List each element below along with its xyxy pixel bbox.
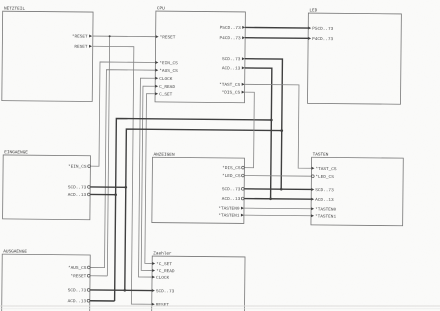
wire net CLOCK (CPU to ZAEHLER) xyxy=(139,78,156,277)
wire net *TAST_CS (CPU to TASTEN) xyxy=(244,84,312,168)
pin AUSGAENGE *AUS_CS xyxy=(68,266,90,271)
pin CPU P4CD..73 xyxy=(220,36,246,41)
wire bus P5CD..73 (CPU to LED) xyxy=(245,26,308,29)
block TASTEN xyxy=(311,152,403,225)
pin NETZTEIL RESET xyxy=(74,45,92,50)
wire bus SCD..73 (AUSGAENGE to ZAEHLER row) xyxy=(90,289,152,292)
pin AUSGAENGE ACD..13 xyxy=(68,299,90,304)
block NETZTEIL xyxy=(2,7,93,102)
junction node SCD at (281.5,188.6) xyxy=(280,188,283,191)
wire net *AUS_CS (CPU to AUSGAENGE) xyxy=(90,70,155,269)
pin AUSGAENGE SCD..73 xyxy=(68,288,90,293)
pin ANZEIGEN *TASTEN1 xyxy=(218,213,244,218)
block LED xyxy=(308,8,402,104)
pin CPU P5CD..73 xyxy=(220,26,246,31)
wire net *DIS_CS (CPU to ANZEIGEN) xyxy=(244,92,254,168)
pin CPU C_SET xyxy=(155,92,173,97)
pin CPU ACD..13 xyxy=(222,66,245,71)
pin ANZEIGEN ACD..13 xyxy=(222,197,244,202)
wire net *LED_CS (ANZEIGEN to TASTEN) xyxy=(244,175,311,178)
pin EINGAENGE ACD..13 xyxy=(68,193,90,198)
wire net *TASTEN1 (ANZEIGEN to TASTEN) xyxy=(244,214,311,217)
wire net C_SET (CPU to ZAEHLER) xyxy=(145,94,155,264)
pin ZAEHLER RESET xyxy=(152,303,170,308)
pin LED P5CD..73 xyxy=(308,27,333,32)
pin CPU SCD..73 xyxy=(222,57,245,62)
wire bus ACD..13 (CPU right drop) xyxy=(244,68,272,199)
pin ANZEIGEN *LED_CS xyxy=(222,174,244,179)
junction node *RESET at (108.7,37.3) xyxy=(109,35,111,37)
pin NETZTEIL *RESET xyxy=(72,34,92,39)
pin ANZEIGEN SCD..73 xyxy=(222,187,244,192)
pin ZAEHLER SCD..73 xyxy=(152,289,175,294)
scan streak bottom xyxy=(0,305,440,309)
pin CPU *TAST_CS xyxy=(219,83,245,88)
block ANZEIGEN xyxy=(152,153,245,224)
pin TASTEN SCD..73 xyxy=(311,188,334,193)
pin CPU CLOCK xyxy=(155,77,173,82)
pin ZAEHLER *C_READ xyxy=(152,269,175,274)
pin TASTEN *TASTEN0 xyxy=(311,207,336,212)
wire net RESET (NETZTEIL to ZAEHLER) xyxy=(90,46,154,304)
wire bus SCD..73 (main horizontal run) xyxy=(125,129,282,292)
pin EINGAENGE SCD..73 xyxy=(68,185,90,190)
wire bus SCD..73 (EINGAENGE row) xyxy=(90,186,126,188)
wire bus ACD..13 (EINGAENGE row) xyxy=(90,193,115,195)
block AUSGAENGE xyxy=(2,249,91,311)
pin TASTEN *TASTEN1 xyxy=(311,214,336,219)
pin ZAEHLER *C_SET xyxy=(152,262,172,267)
pin ZAEHLER CLOCK xyxy=(152,276,170,281)
junction node ACD at (271,198.3) xyxy=(269,197,272,200)
block EINGAENGE xyxy=(3,150,91,220)
wire bus SCD..73 (CPU right drop) xyxy=(244,59,283,189)
pin LED P4CD..73 xyxy=(308,37,333,42)
wire net C_READ (CPU to ZAEHLER) xyxy=(141,86,155,270)
wire bus ACD..13 (ANZEIGEN to TASTEN row) xyxy=(244,198,311,201)
wire bus SCD..73 (ANZEIGEN to TASTEN row) xyxy=(244,188,311,191)
pin CPU *EIN_CS xyxy=(155,61,178,66)
block CPU xyxy=(155,6,245,102)
pin AUSGAENGE *RESET xyxy=(70,274,90,279)
wire bus P4CD..73 (CPU to LED) xyxy=(245,37,308,40)
wire bus ACD..13 (AUSGAENGE row) xyxy=(90,300,115,302)
pin CPU *DIS_CS xyxy=(222,90,245,95)
junction node SCD at (126.1,187.6) xyxy=(124,186,127,189)
pin TASTEN ACD..13 xyxy=(311,198,334,203)
pin CPU *RESET xyxy=(156,35,176,40)
junction node ACD at (271,119.5) xyxy=(270,119,273,122)
pin TASTEN *LED_CS xyxy=(311,175,334,180)
wire net *TASTEN0 (ANZEIGEN to TASTEN) xyxy=(244,207,311,210)
wire net *EIN_CS (CPU to EINGAENGE) xyxy=(90,62,155,167)
pin ANZEIGEN *TASTEN0 xyxy=(218,206,244,211)
pin TASTEN *TAST_CS xyxy=(311,167,336,172)
wire bus ACD..13 (main horizontal run) xyxy=(115,119,272,303)
wire net *RESET (NETZTEIL to CPU, branch to AUSGAENGE) xyxy=(90,36,156,276)
pin ANZEIGEN *DIS_CS xyxy=(222,166,244,171)
block ZAEHLER xyxy=(152,251,245,311)
junction node ACD at (116,195.6) xyxy=(114,193,117,196)
junction node SCD at (281.5,130) xyxy=(280,129,283,132)
pin EINGAENGE *EIN_CS xyxy=(68,165,90,170)
pin CPU C_READ xyxy=(155,85,175,90)
junction node SCD at (126.1,291.2) xyxy=(123,289,126,292)
pin CPU *AUS_CS xyxy=(155,69,178,74)
